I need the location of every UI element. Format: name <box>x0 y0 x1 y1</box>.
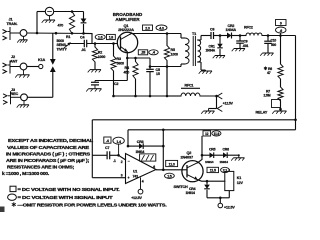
svg-text:15: 15 <box>156 72 160 76</box>
collector voltage box 11.5 <box>207 167 219 172</box>
wire pin3 <box>92 177 125 179</box>
diode CR3 1N914 <box>128 140 145 154</box>
+12.5V terminal <box>218 203 235 209</box>
ground under contact <box>272 109 286 114</box>
base voltage box 1.8 <box>107 34 116 39</box>
svg-text:RESISTANCES ARE IN OHMS;: RESISTANCES ARE IN OHMS; <box>7 165 75 170</box>
diode CR1 <box>81 12 87 34</box>
svg-text:.001: .001 <box>243 44 249 48</box>
svg-text:TRAN.: TRAN. <box>7 22 18 26</box>
base voltage oval 1.6 <box>95 34 105 39</box>
svg-text:1N34A: 1N34A <box>206 48 216 52</box>
wire Q1 emitter node <box>126 52 150 60</box>
wire riser <box>36 12 38 34</box>
wire RFC1 right <box>200 95 217 97</box>
ground under C2 <box>86 89 101 92</box>
potentiometer R1 5000 SENSITIVITY <box>57 12 75 52</box>
svg-text:U1: U1 <box>133 169 137 173</box>
diode CR5 1N914 <box>205 148 216 164</box>
label SWITCH <box>174 185 188 189</box>
legend asterisk note <box>12 202 167 207</box>
wire RFC2 to corner <box>262 34 296 37</box>
ground under terminal <box>42 16 63 28</box>
svg-text:1.5: 1.5 <box>167 174 172 178</box>
wire line A <box>92 119 297 122</box>
wire primary bottom rail <box>149 65 181 68</box>
svg-text:RFC2: RFC2 <box>244 25 253 29</box>
transistor Q1 2N2222A <box>117 32 137 52</box>
ground under C10 <box>260 53 273 56</box>
wire Q1 collector <box>130 33 134 36</box>
title BROADBAND AMPLIFIER <box>113 12 143 32</box>
transistor Q2 2N4037 <box>181 151 204 182</box>
stub to oval <box>118 144 120 155</box>
ground under J1 <box>17 36 27 42</box>
svg-text:–: – <box>128 159 130 163</box>
svg-text:—OMIT RESISTOR FOR POWER L: —OMIT RESISTOR FOR POWER LEVELS UNDER 10… <box>18 202 167 207</box>
svg-text:EXCEPT AS INDICATED, DECIMAL: EXCEPT AS INDICATED, DECIMAL <box>8 138 93 143</box>
svg-text:12: 12 <box>205 132 209 136</box>
resistor R6 47 <box>264 64 283 79</box>
svg-text:.28: .28 <box>141 51 146 55</box>
svg-text:CR3: CR3 <box>137 140 144 144</box>
op-amp U1 741 <box>121 154 156 184</box>
svg-text:R2: R2 <box>98 51 102 55</box>
svg-text:4: 4 <box>142 179 144 183</box>
legend circle symbol <box>8 194 114 200</box>
svg-text:C7: C7 <box>105 146 109 150</box>
wire R6 R7 <box>280 79 282 87</box>
svg-text:1N914: 1N914 <box>186 191 196 195</box>
svg-text:1N34A: 1N34A <box>226 28 237 32</box>
ground after CR6 <box>231 154 244 160</box>
relay coil K1 12V <box>225 169 244 198</box>
ground stub <box>201 109 216 114</box>
svg-text:5000: 5000 <box>57 39 65 43</box>
diode CR4 1N914 <box>186 181 210 198</box>
wire to CR2 <box>214 34 228 37</box>
emitter voltage box <box>203 131 211 136</box>
svg-text:R4: R4 <box>125 66 129 70</box>
svg-text:+12.5V: +12.5V <box>131 196 142 200</box>
label RELAY <box>256 111 268 115</box>
resistor R4 450 <box>124 57 139 96</box>
wire Q2 collector <box>198 180 225 183</box>
svg-text:CR5: CR5 <box>209 148 216 152</box>
svg-text:.01: .01 <box>81 48 86 52</box>
capacitor C9 .001 <box>236 36 248 49</box>
wire output <box>156 169 182 171</box>
legend paragraph <box>2 138 93 176</box>
svg-text:2: 2 <box>121 160 123 164</box>
svg-text:2.3: 2.3 <box>145 26 150 30</box>
svg-text:C9: C9 <box>244 39 248 43</box>
ground under C9 <box>232 49 245 52</box>
wire top rail <box>37 10 84 13</box>
svg-text:AMPLIFIER: AMPLIFIER <box>115 17 140 22</box>
capacitor C7 .1 <box>105 146 116 163</box>
svg-text:= DC VOLTAGE WITH SIGNAL I: = DC VOLTAGE WITH SIGNAL INPUT <box>18 195 114 200</box>
node voltage box <box>276 20 287 26</box>
svg-text:ARE IN PICOFARADS ( pF OR µµF: ARE IN PICOFARADS ( pF OR µµF ); <box>6 158 90 163</box>
legend box symbol <box>10 186 120 192</box>
svg-text:470: 470 <box>58 24 64 28</box>
connector J3 REC <box>3 88 27 104</box>
svg-text:C10: C10 <box>271 38 277 42</box>
wire line B <box>128 129 296 132</box>
capacitor C4 .01 <box>80 35 87 52</box>
svg-text:CR6: CR6 <box>223 148 230 152</box>
svg-text:2.5M: 2.5M <box>264 94 271 98</box>
svg-text:.4: .4 <box>106 139 109 143</box>
wire line B corner down <box>127 130 130 148</box>
wire CR2 out <box>232 34 247 37</box>
svg-text:2N4037: 2N4037 <box>181 156 193 160</box>
svg-text:1000: 1000 <box>98 55 106 59</box>
output voltage box 11.3 <box>166 160 178 166</box>
emitter voltage oval .4 <box>149 50 158 55</box>
ground under J3 <box>17 101 29 108</box>
riser to upper rail <box>166 67 168 97</box>
svg-text:C2: C2 <box>114 82 118 86</box>
input voltage box .4 <box>104 137 111 143</box>
svg-text:ANT: ANT <box>10 59 18 63</box>
svg-text:500: 500 <box>271 43 276 47</box>
off-page arrow lower <box>217 106 222 112</box>
collector voltage oval 2.1 <box>221 167 230 172</box>
wire clamp <box>202 154 239 156</box>
connector J2 ANT <box>3 55 27 74</box>
scan smudge bottom-left corner <box>0 207 5 213</box>
svg-text:1N914: 1N914 <box>220 160 229 164</box>
collector voltage box 2.3 <box>143 25 153 30</box>
off-page arrow upper <box>217 93 222 99</box>
capacitor C5 15 <box>146 58 160 96</box>
svg-text:C6: C6 <box>210 27 214 31</box>
svg-text:.1: .1 <box>113 159 116 163</box>
svg-text:1N914: 1N914 <box>136 150 145 154</box>
wire drop to base line <box>84 33 93 43</box>
resistor R7 2.5M <box>264 87 284 101</box>
wire base line <box>68 42 117 45</box>
op-amp supply pin 4 <box>131 178 144 201</box>
diode CR2 1N34A <box>226 24 237 39</box>
collector rail <box>134 32 181 35</box>
relay contact K1A <box>38 33 56 97</box>
R1 wiper arrow <box>64 42 71 48</box>
svg-text:+12.5V: +12.5V <box>223 101 234 105</box>
svg-text:C4: C4 <box>80 35 84 39</box>
shunt diode 1N34A <box>206 36 223 56</box>
wire Q2 base <box>182 169 187 171</box>
svg-text:3: 3 <box>121 174 123 178</box>
svg-text:VALUES OF CAPACITANCE ARE: VALUES OF CAPACITANCE ARE <box>7 145 89 150</box>
svg-text:1.4: 1.4 <box>116 140 121 144</box>
terminal circle on top rail <box>45 7 53 15</box>
svg-text:11.5: 11.5 <box>210 169 216 173</box>
wire C7 to pin2 <box>110 154 126 160</box>
svg-text:RELAY: RELAY <box>256 111 268 115</box>
output voltage oval 1.5 <box>165 173 175 178</box>
svg-text:1.8: 1.8 <box>109 36 114 40</box>
inductor RFC2 <box>244 25 262 35</box>
wire left drop <box>91 120 93 178</box>
svg-text:RFC1: RFC1 <box>185 83 194 87</box>
wire J2 to contact <box>27 66 39 68</box>
bottom rail <box>207 197 229 204</box>
input voltage oval 1.4 <box>113 137 124 144</box>
resistor R2 1000 <box>92 44 105 70</box>
inductor RFC1 <box>181 83 200 96</box>
feedback network box <box>140 154 156 161</box>
svg-text:47: 47 <box>267 71 271 75</box>
contact circle <box>39 64 43 68</box>
wire secondary to C6 <box>201 35 211 37</box>
svg-text:450: 450 <box>124 71 130 75</box>
collector voltage oval 4.3 <box>156 25 167 30</box>
ground under shunt diode <box>213 56 225 59</box>
svg-text:741: 741 <box>133 174 139 178</box>
svg-text:k =1000 , M=1000 000.: k =1000 , M=1000 000. <box>2 171 49 176</box>
wire J3 to relay <box>27 96 52 98</box>
wire RFC1 left <box>168 95 181 97</box>
svg-text:5600: 5600 <box>117 62 125 66</box>
svg-text:REC: REC <box>11 92 19 96</box>
svg-text:T1: T1 <box>192 32 196 36</box>
svg-text:1000: 1000 <box>171 53 179 57</box>
svg-text:SWITCH: SWITCH <box>174 185 188 189</box>
transformer T1 <box>181 32 201 70</box>
svg-text:+: + <box>128 176 130 180</box>
wire feedback drop <box>162 130 165 171</box>
capacitor C10 500 <box>264 36 276 53</box>
wire Q2 emitter riser <box>198 136 204 162</box>
svg-text:11.3: 11.3 <box>169 163 175 167</box>
wire J1 to base drop <box>27 32 92 35</box>
wire arrow drop <box>215 95 218 109</box>
label +12.5V <box>223 101 234 105</box>
T1 secondary ground <box>199 70 212 74</box>
svg-text:2N2222A: 2N2222A <box>118 27 134 32</box>
connector J1 TRAN. <box>3 18 27 41</box>
svg-text:0: 0 <box>280 21 282 25</box>
emitter voltage box .28 <box>138 50 147 55</box>
capacitor C6 <box>210 27 214 39</box>
ground under R2 <box>88 70 101 73</box>
capacitor C2 bypass <box>91 58 127 88</box>
svg-text:1N914: 1N914 <box>205 160 214 164</box>
wire right edge <box>295 36 297 130</box>
svg-text:1.6: 1.6 <box>98 36 103 40</box>
resistor R3 5600 <box>111 44 124 97</box>
svg-text:11.9: 11.9 <box>214 132 220 136</box>
diode CR6 1N914 <box>220 148 230 164</box>
wire CR3 to drop <box>143 145 163 147</box>
svg-text:Q2: Q2 <box>187 151 192 155</box>
wire C7 input <box>92 154 107 156</box>
svg-text:TIVITY: TIVITY <box>57 48 68 52</box>
wire node to R6 <box>280 36 282 65</box>
svg-text:= DC VOLTAGE WITH NO SIGNA: = DC VOLTAGE WITH NO SIGNAL INPUT. <box>18 187 120 192</box>
ground under J2 <box>15 70 29 78</box>
resistor R5 1000 <box>164 34 178 97</box>
svg-text:12V: 12V <box>237 181 244 185</box>
svg-text:K1: K1 <box>237 176 241 180</box>
svg-text:IN MICROFARADS ( µF ) ; OTHERS: IN MICROFARADS ( µF ) ; OTHERS <box>6 151 90 156</box>
svg-text:6: 6 <box>153 165 155 169</box>
svg-text:R5: R5 <box>171 48 175 52</box>
node voltage oval <box>276 27 287 36</box>
svg-text:+12.5V: +12.5V <box>224 205 235 209</box>
svg-text:4.3: 4.3 <box>159 26 164 30</box>
svg-text:R1: R1 <box>66 35 70 39</box>
svg-text:.4: .4 <box>152 51 155 55</box>
lower rail <box>112 95 181 98</box>
emitter voltage oval <box>212 131 221 136</box>
svg-text:R3: R3 <box>117 57 121 61</box>
svg-text:K1A: K1A <box>38 58 46 62</box>
svg-text:.6: .6 <box>279 29 282 33</box>
relay contact K1B <box>272 100 282 111</box>
